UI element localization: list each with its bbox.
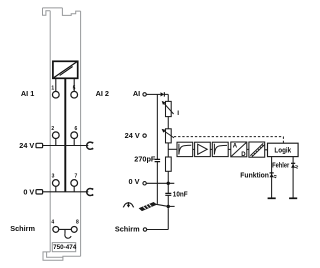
diode D1	[161, 92, 165, 96]
wire stub right of shield node	[168, 205, 174, 207]
contact circle 5	[71, 91, 78, 98]
ground bar Fehler	[289, 197, 297, 199]
wire left rail upper	[156, 94, 158, 159]
wire stems contacts 3 and 7	[56, 186, 74, 191]
contact circle 8	[71, 226, 77, 232]
wire Fehler LED line	[292, 157, 294, 199]
block filter 1	[177, 142, 193, 156]
wire Funktion LED line	[271, 157, 273, 199]
node shield junction	[167, 205, 170, 208]
label plate 750-474 box	[52, 243, 75, 252]
module bottom profile with DIN foot	[43, 252, 81, 260]
block filter 2	[212, 142, 228, 156]
wire stems contacts 2 and 6	[56, 139, 74, 146]
wire diode to corner	[164, 94, 168, 101]
terminal AI	[143, 93, 146, 96]
wire branch to filter block	[168, 148, 177, 150]
svg-text:2: 2	[51, 126, 54, 132]
svg-text:Schirm: Schirm	[10, 224, 35, 233]
svg-text:7: 7	[75, 174, 78, 180]
svg-text:AI 2: AI 2	[96, 89, 109, 98]
terminal box 0V	[36, 190, 43, 194]
svg-text:Fehler: Fehler	[272, 162, 289, 169]
svg-text:8: 8	[76, 219, 79, 225]
svg-text:Funktion: Funktion	[240, 172, 269, 179]
svg-text:Schirm: Schirm	[115, 225, 140, 234]
terminal 24V right	[143, 134, 146, 137]
svg-text:D: D	[241, 152, 246, 158]
contact circle 2	[52, 132, 59, 139]
wire left rail lower	[156, 162, 158, 204]
dashed control line to Logik	[174, 137, 284, 143]
wire AI to diode	[146, 93, 160, 95]
svg-text:AI 1: AI 1	[21, 89, 34, 98]
module outline top profile	[43, 8, 81, 15]
svg-text:I: I	[177, 110, 179, 117]
terminal 0V right	[143, 182, 146, 185]
wire: transducer internal 0V heavy line	[64, 79, 66, 192]
svg-text:3: 3	[52, 174, 55, 180]
block A/D converter	[231, 142, 247, 157]
chassis ground symbol hatched	[139, 202, 156, 210]
wire R1 to R2	[167, 117, 169, 129]
svg-text:4: 4	[51, 219, 54, 225]
wire 0V row	[146, 182, 174, 184]
resistor R2 adjustable	[163, 129, 174, 143]
svg-text:0 V: 0 V	[129, 177, 140, 186]
wire 0V row through module	[43, 191, 88, 193]
svg-text:Logik: Logik	[274, 148, 291, 155]
svg-text:A: A	[233, 143, 238, 149]
wire Schirm to shield node	[147, 208, 168, 229]
contact circle 7	[71, 180, 78, 187]
block amplifier	[195, 142, 211, 156]
wire 10nF to shield node	[167, 195, 169, 206]
svg-text:750-474: 750-474	[53, 244, 77, 251]
LED Fehler	[291, 163, 298, 168]
wire stubs between blocks	[193, 148, 268, 150]
wire R2 bottom to R3	[167, 143, 169, 157]
svg-text:24 V: 24 V	[19, 141, 34, 150]
contact circle 6	[71, 132, 78, 139]
transducer U1 box with diagonal	[53, 61, 78, 78]
svg-text:AI: AI	[133, 89, 140, 98]
contact circle 1	[52, 91, 59, 98]
module right edge	[80, 11, 82, 256]
svg-text:10nF: 10nF	[173, 191, 188, 198]
module left edge	[49, 11, 51, 252]
wire 24V row through module	[43, 145, 89, 147]
svg-text:6: 6	[75, 126, 78, 132]
ground bar Funktion	[268, 197, 276, 199]
LED Funktion	[270, 173, 277, 178]
block galvanic isolation	[249, 142, 265, 157]
power jumper contact 0V	[87, 188, 94, 195]
capacitor C1 270pF	[155, 159, 161, 161]
wire stems contacts 1 and 5	[56, 79, 74, 92]
contact circle 3	[52, 180, 59, 187]
functional earth symbol	[123, 202, 133, 207]
svg-text:1: 1	[51, 85, 54, 91]
Logik box	[268, 143, 299, 156]
power jumper contact 24V	[87, 142, 94, 149]
terminal box 24V	[36, 143, 43, 147]
svg-text:24 V: 24 V	[125, 131, 140, 140]
terminal Schirm right	[143, 228, 146, 231]
svg-text:270pF: 270pF	[134, 154, 156, 163]
wire R3 to 0V node	[167, 171, 169, 193]
contact circle 4	[53, 226, 59, 232]
wire chassis to shield node	[156, 204, 169, 206]
capacitor C2 10nF	[165, 193, 171, 195]
resistor R1 adjustable	[163, 101, 173, 116]
node 0V junction	[167, 182, 170, 185]
resistor R3	[166, 157, 172, 171]
svg-text:5: 5	[73, 85, 76, 91]
wire shield link 4-8 with hook	[59, 229, 71, 238]
svg-text:0 V: 0 V	[23, 187, 34, 196]
